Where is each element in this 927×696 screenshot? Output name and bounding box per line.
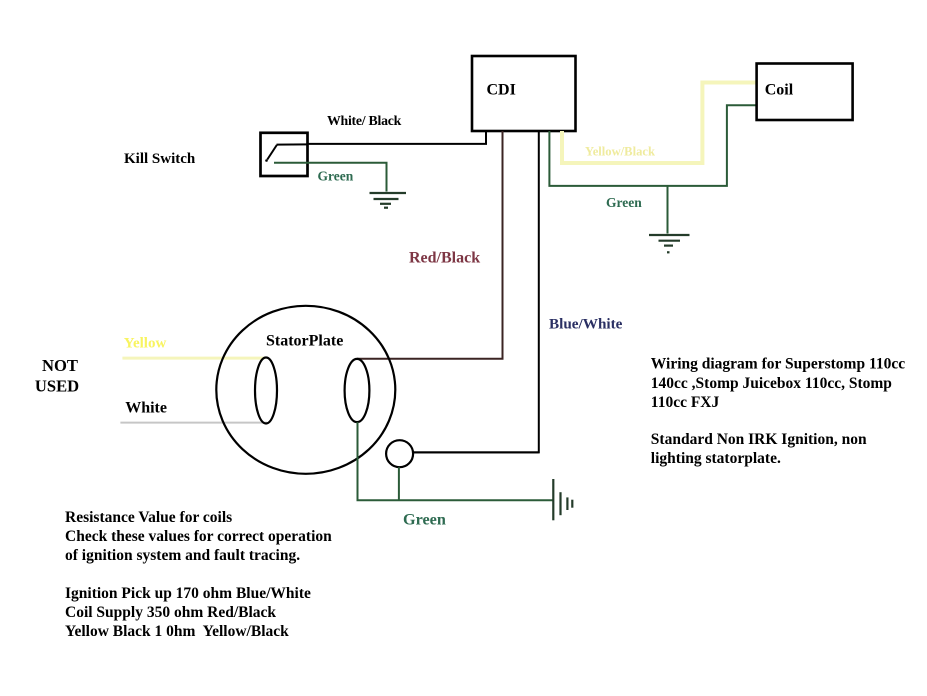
kill switch lever xyxy=(265,144,308,161)
svg-text:Yellow: Yellow xyxy=(124,336,167,352)
svg-text:NOT: NOT xyxy=(42,356,78,375)
wire green: kill switch to ground xyxy=(274,163,387,192)
svg-text:Yellow/Black: Yellow/Black xyxy=(585,145,655,159)
wire white (not used) xyxy=(120,422,267,424)
svg-text:Resistance Value for coils: Resistance Value for coils xyxy=(65,509,232,526)
svg-text:110cc FXJ: 110cc FXJ xyxy=(651,394,720,411)
svg-text:Standard Non IRK Ignition, non: Standard Non IRK Ignition, non xyxy=(651,431,867,448)
wire yellow (not used) xyxy=(122,357,264,360)
svg-text:White: White xyxy=(125,400,167,417)
ground G2 (below coil wire) xyxy=(649,235,690,252)
svg-text:USED: USED xyxy=(35,376,79,395)
svg-text:Coil Supply 350 ohm Red/Black: Coil Supply 350 ohm Red/Black xyxy=(65,604,276,621)
wire Red/Black: CDI to stator right coil xyxy=(357,131,503,359)
stator coil left (not used) xyxy=(255,358,277,424)
svg-text:Green: Green xyxy=(606,195,642,210)
ground G3 (rotated, right of green rail) xyxy=(553,479,572,520)
pickup P1 circle xyxy=(386,440,413,467)
wire green: pickup to ground rail xyxy=(398,467,400,500)
ground G1 (below kill switch) xyxy=(370,193,407,208)
svg-text:Ignition Pick up 170 ohm Blue/: Ignition Pick up 170 ohm Blue/White xyxy=(65,585,311,602)
svg-text:Check these values for correct: Check these values for correct operation xyxy=(65,528,332,545)
svg-text:CDI: CDI xyxy=(487,82,516,99)
svg-text:StatorPlate: StatorPlate xyxy=(266,333,343,350)
wire White/Black: kill switch to CDI xyxy=(308,130,486,144)
kill switch SW1 box xyxy=(261,133,308,176)
svg-text:Wiring diagram for Superstomp: Wiring diagram for Superstomp 110cc xyxy=(651,355,905,372)
coil box T1 xyxy=(757,64,853,121)
svg-text:140cc ,Stomp Juicebox 110cc, S: 140cc ,Stomp Juicebox 110cc, Stomp xyxy=(651,375,892,392)
svg-text:Yellow Black 1 0hm Yellow/Bla: Yellow Black 1 0hm Yellow/Black xyxy=(65,623,289,640)
wire black: pickup to blue/white xyxy=(413,451,539,453)
svg-text:White/ Black: White/ Black xyxy=(327,113,402,128)
svg-text:Green: Green xyxy=(318,169,354,184)
svg-text:Red/Black: Red/Black xyxy=(409,250,480,267)
svg-text:lighting statorplate.: lighting statorplate. xyxy=(651,450,781,467)
wire Green: CDI to coil and ground xyxy=(549,105,756,186)
svg-text:Blue/White: Blue/White xyxy=(549,315,623,332)
svg-text:Kill Switch: Kill Switch xyxy=(124,151,196,167)
note: resistance values xyxy=(65,509,332,640)
wire green: stator coil to ground rail xyxy=(358,422,554,500)
wire Blue/White: CDI to pickup circle xyxy=(413,131,539,452)
note: wiring description xyxy=(651,355,905,467)
svg-text:Green: Green xyxy=(403,511,446,529)
stator coil right (source coil) xyxy=(345,359,370,422)
svg-text:of ignition system and fault t: of ignition system and fault tracing. xyxy=(65,547,300,564)
svg-text:Coil: Coil xyxy=(765,82,794,99)
stator plate circle xyxy=(216,306,395,474)
wire green branch to ground xyxy=(667,186,669,234)
wire Yellow/Black: CDI to coil xyxy=(562,83,757,164)
CDI box U1 xyxy=(472,56,576,131)
